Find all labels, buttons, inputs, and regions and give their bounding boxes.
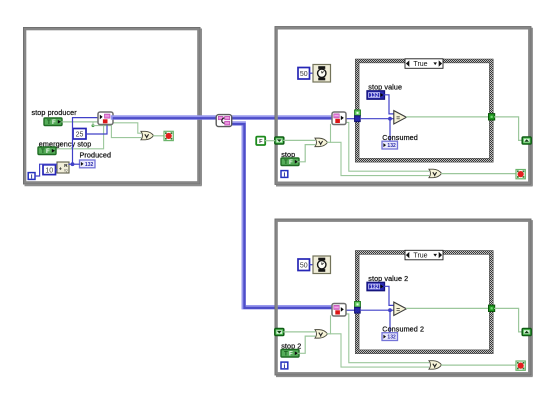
svg-text:True: True	[413, 253, 427, 260]
numeric constant 50 (A)	[298, 68, 310, 80]
wire element inside case (A)	[360, 118, 393, 120]
case selector True A	[405, 59, 443, 69]
indicator Produced (I32)	[80, 160, 96, 168]
dequeue element node (B)	[332, 304, 346, 317]
svg-text:10: 10	[45, 167, 53, 174]
svg-text:F: F	[289, 159, 293, 166]
wire QR output to Produced	[69, 163, 79, 165]
svg-text:i: i	[283, 363, 285, 370]
tunnel case right (A)	[489, 114, 495, 120]
wire stop value 2 to equals	[385, 286, 394, 305]
wire left OR output to bottom OR lower input (B)	[328, 334, 429, 367]
control stop value (I32)	[367, 91, 385, 99]
wire 25 to enqueue node	[86, 125, 107, 134]
wire bottom OR to loop condition (B)	[442, 364, 516, 366]
indicator Consumed (I32)	[382, 141, 398, 149]
wire i to QR input	[35, 164, 56, 176]
tunnel green on case left (A)	[355, 110, 361, 116]
svg-text:i: i	[283, 171, 285, 178]
wire queue: junction to bottom consumer dequeue	[231, 123, 334, 308]
loop condition terminal consumer B (stop sign)	[516, 361, 525, 370]
wire dequeue bottom stub (A)	[330, 124, 332, 142]
case selector True B	[405, 250, 443, 259]
iteration terminal i (consumer B)	[281, 362, 288, 370]
shift register right (up arrow) B	[522, 329, 531, 336]
svg-text:50: 50	[300, 71, 308, 78]
svg-text:132: 132	[370, 285, 379, 291]
wire bottom OR to loop condition (A)	[442, 173, 516, 175]
svg-text:stop value: stop value	[368, 82, 402, 91]
svg-text:Consumed 2: Consumed 2	[382, 324, 424, 333]
boolean control stop (TF)	[281, 158, 299, 166]
wire emergency stop join	[56, 126, 104, 149]
wire element to Consumed	[389, 119, 391, 142]
quotient-remainder node	[57, 162, 69, 173]
wire shift register to OR upper input (B)	[284, 331, 315, 333]
tunnel green on case left (B)	[355, 302, 361, 308]
svg-text:F: F	[52, 119, 56, 126]
equals node (B)	[394, 302, 407, 315]
wire queue: enqueue to junction (thick blue)	[113, 115, 218, 120]
wire element inside case (B)	[360, 309, 393, 311]
loop condition terminal consumer A (stop sign)	[516, 170, 525, 179]
svg-text:IQ: IQ	[64, 169, 68, 173]
wait ms node (B)	[313, 256, 331, 274]
boolean control emergency stop (TF)	[38, 147, 56, 155]
wire shift register to OR upper input (A)	[284, 139, 315, 141]
svg-text:Consumed: Consumed	[382, 133, 418, 142]
while loop: producer	[23, 27, 201, 185]
svg-text:T: T	[284, 351, 288, 358]
enqueue element node	[98, 112, 113, 125]
svg-text:T: T	[41, 148, 45, 155]
indicator Consumed 2 (I32)	[382, 333, 398, 341]
wire F constant to left shift register A	[265, 140, 274, 142]
iteration terminal i (consumer A)	[281, 171, 288, 179]
tunnel blue element input (B)	[355, 307, 361, 313]
junction dot on stop producer wire	[92, 124, 95, 127]
wire 10 to QR input	[56, 169, 57, 171]
wire tunnel to right shift register (A)	[495, 117, 522, 140]
control stop value 2 (I32)	[367, 282, 385, 290]
wire stop 2 to OR lower input	[298, 336, 315, 353]
wire equals result to case right tunnel (B)	[406, 307, 488, 309]
case structure B	[355, 251, 493, 354]
numeric constant 10	[43, 165, 56, 175]
wire equals result to case right tunnel (A)	[406, 116, 488, 118]
svg-text:=: =	[396, 306, 400, 313]
wire dequeue element to case tunnel (A)	[346, 118, 355, 120]
case structure A	[355, 59, 493, 162]
wire stop value to equals	[385, 95, 394, 114]
svg-text:True: True	[413, 61, 427, 68]
boolean constant F (init shift register)	[256, 137, 265, 146]
tunnel case right (B)	[489, 305, 495, 311]
svg-text:+: +	[59, 167, 62, 173]
numeric constant 50 (B)	[298, 259, 310, 271]
shift register left (down arrow) B	[275, 329, 284, 336]
junction dot element wire (B)	[388, 308, 392, 312]
wire dequeue element to case tunnel (B)	[346, 309, 355, 311]
wire queue: junction to top consumer dequeue	[231, 115, 334, 120]
OR gate bottom (B)	[429, 361, 442, 370]
svg-text:stop producer: stop producer	[32, 108, 78, 117]
svg-text:stop value 2: stop value 2	[368, 274, 408, 283]
wire dequeue bottom stub (B)	[330, 316, 332, 334]
junction dot QR output	[71, 162, 75, 166]
svg-text:132: 132	[370, 93, 379, 99]
svg-text:T: T	[284, 159, 288, 166]
OR gate left (B)	[315, 330, 328, 339]
svg-text:F: F	[259, 139, 263, 145]
boolean control stop producer (TF)	[44, 118, 62, 126]
wire enqueue error to producer OR upper input	[113, 123, 141, 133]
boolean control stop 2 (TF)	[281, 350, 299, 358]
while loop: consumer A	[275, 27, 533, 186]
equals node (A)	[394, 111, 407, 124]
svg-text:i: i	[31, 173, 33, 180]
wire dequeue error to bottom OR upper input (B)	[346, 314, 429, 363]
wire QR output to enqueue element	[73, 118, 99, 165]
svg-text:F: F	[46, 148, 50, 155]
tunnel blue element input (A)	[355, 116, 361, 122]
wire producer OR to loop condition	[154, 135, 164, 137]
wire stop producer to enqueue element input	[62, 121, 98, 123]
svg-text:132: 132	[85, 162, 94, 168]
while loop: consumer B	[275, 219, 533, 376]
wire 50 to wait (A)	[310, 72, 314, 74]
svg-text:132: 132	[387, 143, 396, 149]
OR gate bottom (A)	[429, 169, 442, 178]
svg-text:F: F	[289, 351, 293, 358]
svg-text:=: =	[396, 115, 400, 122]
svg-text:T: T	[47, 119, 51, 126]
dequeue element node (A)	[332, 112, 346, 125]
svg-text:50: 50	[300, 262, 308, 269]
wire left OR output to bottom OR lower input (A)	[328, 142, 429, 175]
queue wire junction node	[216, 115, 232, 127]
wire stop to OR lower input	[298, 145, 315, 162]
shift register right (up arrow) A	[522, 137, 531, 144]
svg-text:25: 25	[76, 131, 84, 138]
shift register left (down arrow) A	[275, 137, 284, 144]
OR gate left (A)	[315, 138, 328, 147]
wire 50 to wait (B)	[310, 264, 314, 266]
svg-text:132: 132	[387, 335, 396, 341]
wire dequeue error to bottom OR upper input (A)	[346, 122, 429, 171]
wire element to Consumed 2	[389, 310, 391, 333]
numeric constant 25	[73, 129, 86, 140]
wire branch to producer OR lower input	[93, 122, 141, 138]
svg-text:Produced: Produced	[80, 150, 112, 159]
wire tunnel to right shift register (B)	[495, 308, 522, 332]
OR gate producer	[141, 131, 154, 140]
loop condition terminal producer (stop sign)	[164, 131, 173, 140]
iteration terminal i (producer)	[28, 173, 35, 181]
junction dot element wire (A)	[388, 117, 392, 121]
wait ms node (A)	[313, 65, 331, 83]
